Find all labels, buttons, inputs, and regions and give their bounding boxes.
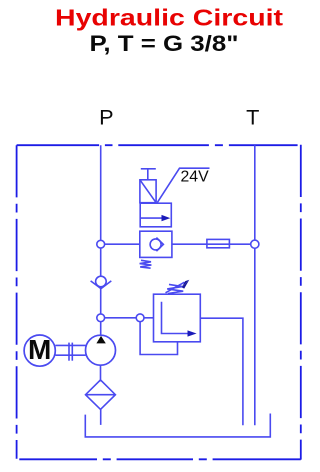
relief valve RV1 xyxy=(154,280,201,342)
filter element line xyxy=(86,394,116,396)
svg-text:T: T xyxy=(246,105,259,130)
valve V1 position box B (check) xyxy=(140,231,172,257)
valve V1 position box A (flow arrow) xyxy=(140,203,171,227)
junction node D (orifice to T line) xyxy=(251,240,259,248)
wire: node B to relief valve inlet xyxy=(101,317,154,319)
check valve CV1 seat xyxy=(91,281,112,289)
wire: T return line vertical xyxy=(254,145,256,425)
check valve CV1 ball xyxy=(96,276,107,287)
24V leader line xyxy=(157,168,209,202)
drive shaft lower line xyxy=(55,354,85,356)
wire: relief valve pilot loop xyxy=(140,318,177,355)
svg-text:Hydraulic Circuit: Hydraulic Circuit xyxy=(55,4,283,30)
enclosure border bottom (dash-dot) xyxy=(19,458,301,460)
relief valve adjustment arrow xyxy=(166,282,185,293)
tank reservoir xyxy=(85,414,270,437)
solenoid coil diagonal xyxy=(140,180,156,203)
svg-text:P, T = G 3/8": P, T = G 3/8" xyxy=(90,31,239,56)
enclosure border right (dash-dot) xyxy=(300,145,302,460)
valve V1 check ball in box B xyxy=(150,239,161,250)
junction node C (relief pilot tap) xyxy=(136,314,144,322)
wire: pump outlet to filter xyxy=(100,365,102,380)
pump outlet triangle xyxy=(96,336,105,344)
suction filter F1 diamond xyxy=(86,380,116,410)
drive shaft upper line xyxy=(55,344,85,346)
wire: relief valve outlet to tank xyxy=(200,318,243,425)
valve V1 return spring xyxy=(140,260,152,268)
junction node A (P line to valve) xyxy=(97,240,105,248)
svg-text:P: P xyxy=(99,105,113,130)
enclosure border left (dash-dot) xyxy=(16,145,18,459)
relief valve spring xyxy=(167,284,183,293)
manual override pin cap xyxy=(141,168,156,170)
junction node B (P line to relief) xyxy=(97,314,105,322)
valve V1 arrow in box A xyxy=(140,217,163,219)
orifice restrictor xyxy=(207,239,230,247)
solenoid coil box xyxy=(140,180,156,203)
svg-text:M: M xyxy=(28,334,51,365)
coupling bar 1 xyxy=(68,343,70,361)
coupling bar 2 xyxy=(71,343,73,361)
relief valve body square xyxy=(154,294,201,342)
wire: P supply line vertical xyxy=(100,145,102,335)
enclosure border top (dash-dot) xyxy=(17,144,298,146)
wire: filter suction stub into tank xyxy=(100,409,102,425)
manual override pin stem xyxy=(147,169,149,180)
wire: solenoid valve outlet through orifice to T line xyxy=(172,243,255,245)
valve V1 check seat in box B xyxy=(156,238,163,252)
wire: node A to solenoid valve inlet xyxy=(101,243,140,245)
svg-text:24V: 24V xyxy=(181,168,210,185)
solenoid valve V1 xyxy=(140,169,172,268)
relief valve internal flow path xyxy=(162,302,189,334)
pump P1 circle xyxy=(86,335,116,365)
electric motor M circle xyxy=(24,335,55,366)
